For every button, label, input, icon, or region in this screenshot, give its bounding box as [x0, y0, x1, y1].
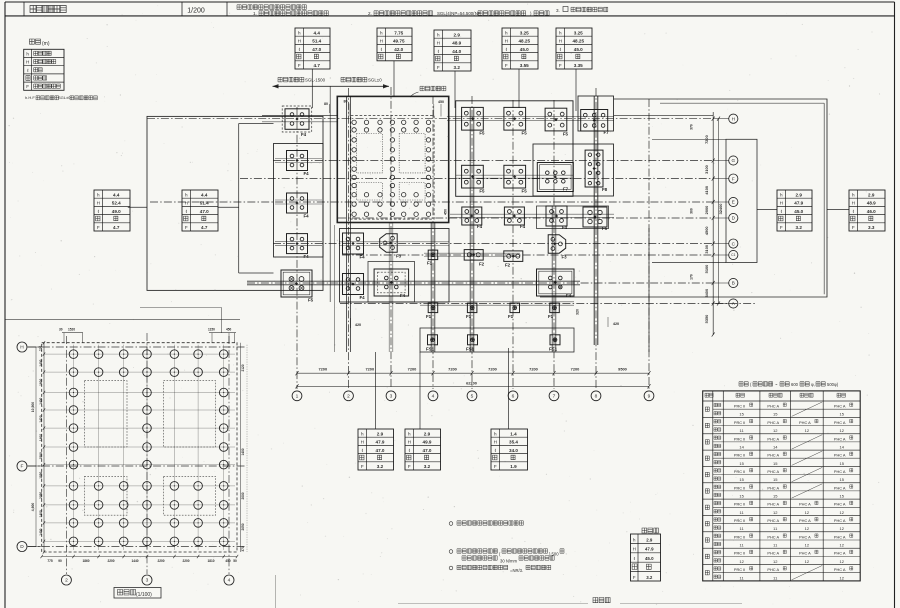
- svg-text:1400: 1400: [241, 448, 245, 455]
- SGL-1500 label: [278, 77, 326, 82]
- svg-text:7200: 7200: [408, 366, 417, 371]
- leader TL2: [218, 206, 239, 208]
- overall dim 62200: [296, 381, 651, 389]
- title bar: [5, 2, 895, 16]
- svg-text:ℓ: ℓ: [362, 448, 364, 453]
- bracket around right bubbles: [652, 139, 757, 262]
- svg-text:F1: F1: [508, 314, 514, 319]
- svg-text:12: 12: [839, 526, 844, 531]
- svg-text:3100: 3100: [704, 245, 709, 254]
- grid line col 6: [512, 100, 514, 389]
- beam row H mid: [447, 117, 614, 121]
- right dimension chain line: [712, 112, 715, 337]
- grid bubble right A: [729, 299, 738, 308]
- svg-text:1400: 1400: [39, 359, 43, 366]
- dim 7200 bottom: [365, 366, 374, 371]
- mat pit dotted square NW: [356, 134, 382, 173]
- svg-text:F4: F4: [304, 254, 310, 259]
- grid bubble left H: [17, 342, 27, 352]
- svg-text:45.0: 45.0: [645, 556, 654, 561]
- dim 2120 plan100 right: [241, 364, 245, 371]
- svg-text:45.0: 45.0: [574, 47, 583, 52]
- svg-text:3.55: 3.55: [520, 63, 529, 68]
- svg-text:F5: F5: [522, 131, 528, 136]
- svg-text:H: H: [26, 60, 29, 65]
- svg-text:500φ): 500φ): [827, 382, 839, 387]
- svg-text:F5: F5: [563, 132, 569, 137]
- svg-text:7200: 7200: [571, 366, 580, 371]
- beam row C segment: [339, 242, 449, 246]
- svg-text:PRC II: PRC II: [734, 567, 745, 572]
- svg-text:2200: 2200: [157, 559, 164, 563]
- left bracket: [239, 124, 274, 274]
- svg-text:12: 12: [839, 543, 844, 548]
- dim 2050 plan100 right: [241, 523, 245, 530]
- svg-text:FS1: FS1: [549, 347, 558, 352]
- svg-text:1.9: 1.9: [510, 464, 517, 469]
- dim 1810 plan100 bottom: [207, 559, 214, 563]
- beam row B: [247, 281, 580, 285]
- svg-text:H: H: [298, 39, 301, 44]
- svg-text:F1: F1: [466, 314, 472, 319]
- footing F4 col3 row-B dashed: [374, 269, 409, 298]
- svg-text:1810: 1810: [207, 559, 214, 563]
- svg-text:14: 14: [739, 444, 744, 449]
- svg-text:47.9: 47.9: [794, 201, 803, 206]
- footing F1 col7 row-A: [548, 303, 559, 319]
- svg-text:14: 14: [773, 444, 778, 449]
- leader left H: [27, 346, 41, 348]
- svg-text:2000: 2000: [241, 492, 245, 499]
- plan100 bottom dim line: [41, 555, 239, 558]
- svg-text:H: H: [20, 345, 24, 351]
- svg-text:1/200: 1/200: [187, 8, 205, 15]
- grid bubble plan100 col 2: [61, 575, 71, 585]
- table T6 h-values: [777, 190, 812, 231]
- svg-text:F: F: [408, 464, 411, 469]
- svg-text:H: H: [185, 201, 188, 206]
- grid bubble right D: [729, 213, 738, 222]
- footing F1 col4 row-A: [426, 303, 438, 319]
- svg-text:F: F: [298, 63, 301, 68]
- svg-text:450: 450: [226, 328, 232, 332]
- plan100 grid row F: [28, 465, 245, 467]
- svg-text:PHC A: PHC A: [767, 534, 779, 539]
- dim 4600 plan100: [31, 466, 36, 547]
- dim 4500 right chain: [704, 226, 709, 235]
- dim 170: [690, 274, 694, 280]
- svg-text:1150: 1150: [208, 328, 215, 332]
- svg-text:PRC II: PRC II: [734, 551, 745, 556]
- svg-text:D: D: [20, 544, 24, 550]
- svg-text:F4: F4: [360, 255, 366, 260]
- svg-text:F1: F1: [548, 314, 554, 319]
- svg-text:15: 15: [773, 493, 778, 498]
- svg-text:SGL(4)NP=54.500(NP: SGL(4)NP=54.500(NP: [437, 11, 481, 16]
- svg-text:47.0: 47.0: [376, 448, 385, 453]
- svg-text:1: 1: [296, 394, 299, 400]
- beam row H right: [614, 115, 713, 117]
- svg-text:F2: F2: [479, 262, 485, 267]
- grid bubble right H: [729, 114, 738, 123]
- beam col4: [431, 222, 435, 352]
- svg-text:F1: F1: [427, 261, 433, 266]
- svg-text:PRC II: PRC II: [734, 534, 745, 539]
- svg-text:): ): [530, 11, 532, 16]
- svg-text:12: 12: [839, 559, 844, 564]
- svg-text:2: 2: [347, 394, 350, 400]
- svg-text:PRC II: PRC II: [734, 404, 745, 409]
- svg-text:11: 11: [773, 526, 778, 531]
- dim 775 plan100 bottom: [47, 559, 53, 563]
- svg-text:15: 15: [773, 461, 778, 466]
- svg-text:(1/100): (1/100): [136, 592, 152, 598]
- svg-text:1600: 1600: [39, 379, 43, 386]
- note item3: [556, 7, 608, 14]
- svg-text:H: H: [408, 440, 411, 445]
- svg-text:G: G: [732, 158, 736, 163]
- svg-text:F: F: [21, 464, 24, 470]
- note item2: [368, 11, 549, 16]
- SGL+-0 label: [341, 77, 382, 82]
- footing F7 row-H: [581, 110, 609, 135]
- svg-text:ℓ: ℓ: [853, 209, 855, 214]
- svg-text:6: 6: [512, 394, 515, 400]
- svg-text:PRC II: PRC II: [734, 502, 745, 507]
- svg-text:PHC A: PHC A: [767, 404, 779, 409]
- leader TL1: [128, 206, 147, 208]
- grid bubble right E: [729, 197, 738, 206]
- svg-text:PHC A: PHC A: [767, 436, 779, 441]
- beam stubs left footing column: [275, 159, 322, 246]
- svg-text:F3: F3: [396, 254, 402, 259]
- svg-text:90: 90: [58, 559, 62, 563]
- grid line row B: [247, 282, 713, 284]
- grid bubble right B: [729, 278, 738, 287]
- leader bubble F: [713, 178, 728, 180]
- svg-text:44.0: 44.0: [452, 49, 461, 54]
- footing F5 col6 row-H: [504, 107, 527, 135]
- svg-text:SGL-1500: SGL-1500: [305, 78, 326, 83]
- grid bubble bottom col 9: [644, 391, 654, 401]
- footing F7 row-G: [537, 163, 573, 192]
- beam col5: [470, 108, 474, 352]
- svg-text:2.9: 2.9: [796, 192, 803, 197]
- mat inner dashed outline: [351, 116, 434, 220]
- svg-text:F: F: [26, 84, 29, 89]
- svg-text:ℓ: ℓ: [495, 448, 497, 453]
- svg-text:PHC A: PHC A: [834, 534, 846, 539]
- table T7 h-values: [849, 190, 885, 231]
- pile table group 8: [705, 518, 853, 532]
- svg-text:PHC A: PHC A: [767, 469, 779, 474]
- svg-text:ℓ: ℓ: [186, 209, 188, 214]
- svg-text:49.0: 49.0: [112, 209, 121, 214]
- note bullet 1: [449, 521, 523, 526]
- svg-text:F5: F5: [479, 189, 485, 194]
- svg-text:φ,: φ,: [811, 382, 815, 387]
- dim 1600 plan100 left: [39, 379, 43, 386]
- svg-text:450: 450: [225, 559, 231, 563]
- outline footing column box: [274, 144, 324, 258]
- svg-text:=NR/3.: =NR/3.: [510, 568, 523, 573]
- svg-text:4.4: 4.4: [201, 192, 208, 197]
- svg-text:PHC A: PHC A: [834, 502, 846, 507]
- grid line col 9: [648, 99, 650, 389]
- svg-text:FS1: FS1: [466, 347, 475, 352]
- legend table: [24, 49, 64, 90]
- svg-text:12: 12: [739, 559, 744, 564]
- svg-text:(: (: [499, 552, 501, 557]
- table TB1 h-values: [358, 429, 394, 470]
- mat pit dotted square SW: [356, 183, 382, 201]
- svg-text:PHC A: PHC A: [799, 420, 811, 425]
- svg-text:PHC A: PHC A: [767, 567, 779, 572]
- beam row G segment: [456, 175, 573, 178]
- svg-text:49.9: 49.9: [423, 440, 432, 445]
- plan100 right dim chain: [241, 343, 248, 552]
- table TB2 h-values: [405, 429, 441, 470]
- grid line row E: [150, 201, 713, 203]
- note bullet 3: [449, 565, 551, 573]
- svg-text:h: h: [380, 30, 383, 35]
- svg-text:PRC II: PRC II: [734, 436, 745, 441]
- outline F7-F8 block: [533, 144, 614, 196]
- svg-text:4.7: 4.7: [314, 63, 321, 68]
- svg-text:47.9: 47.9: [376, 440, 385, 445]
- svg-text:F8: F8: [602, 187, 608, 192]
- footing F4 col2 row-B: [343, 274, 366, 301]
- dim 2000 right chain: [704, 206, 709, 215]
- svg-text:48.9: 48.9: [867, 201, 876, 206]
- svg-text:H: H: [361, 440, 364, 445]
- svg-text:1440: 1440: [131, 559, 138, 563]
- grid line col 2: [348, 88, 350, 389]
- dim 2200 plan100 bottom: [157, 559, 164, 563]
- svg-text:47.9: 47.9: [645, 547, 654, 552]
- leader bubble D: [713, 217, 728, 219]
- dim 1400 plan100 left: [39, 510, 43, 517]
- mat foundation outer border: [337, 96, 448, 222]
- mat dim 450 top: [434, 100, 444, 117]
- svg-text:12: 12: [839, 575, 844, 580]
- pile table group 6: [705, 484, 853, 499]
- svg-text:3.25: 3.25: [520, 30, 529, 35]
- svg-text:PRC II: PRC II: [734, 420, 745, 425]
- dim 50 plan100 bottom: [233, 559, 237, 563]
- grid line col 3: [390, 87, 392, 389]
- table TT tokki h-values: [631, 534, 661, 581]
- leader TB2: [419, 352, 421, 429]
- svg-text:F4: F4: [562, 225, 568, 230]
- svg-text:12: 12: [839, 428, 844, 433]
- svg-text:370: 370: [690, 124, 694, 130]
- leader T4: [518, 69, 520, 108]
- dim 3400 right chain: [704, 289, 709, 298]
- outline lower inner box: [368, 262, 415, 303]
- svg-text:PHC A: PHC A: [834, 551, 846, 556]
- svg-text:300: 300: [690, 208, 694, 214]
- svg-text:7200: 7200: [448, 366, 457, 371]
- svg-text:2: 2: [65, 578, 68, 584]
- svg-text:51.4: 51.4: [200, 201, 209, 206]
- svg-text:7200: 7200: [318, 366, 327, 371]
- svg-text:1400: 1400: [39, 434, 43, 441]
- footing F4 col7 row-D: [546, 206, 568, 230]
- grid bubble bottom col 7: [549, 391, 559, 401]
- dim 1440 plan100 bottom: [131, 559, 138, 563]
- outline left wing: [147, 116, 323, 290]
- svg-text:12: 12: [805, 428, 810, 433]
- leader left F: [27, 465, 41, 467]
- svg-text:(m): (m): [42, 41, 50, 47]
- dim 7200 bottom: [488, 366, 497, 371]
- pile table group 3: [705, 435, 853, 450]
- svg-text:ℓ: ℓ: [27, 68, 29, 73]
- svg-text:5350: 5350: [704, 315, 709, 324]
- svg-text:12: 12: [805, 543, 810, 548]
- dim 1860 plan100 bottom: [82, 559, 89, 563]
- svg-text:80: 80: [324, 102, 328, 106]
- footing F5 col5 row-H: [462, 107, 485, 135]
- svg-text:E: E: [732, 200, 735, 205]
- svg-text:2050: 2050: [241, 523, 245, 530]
- footing F4 col2 row-C: [343, 233, 366, 260]
- svg-text:F5: F5: [602, 226, 608, 231]
- svg-text:PHC A: PHC A: [834, 420, 846, 425]
- dim 420 below col8: [608, 317, 619, 327]
- svg-text:46.0: 46.0: [867, 209, 876, 214]
- svg-text:F3: F3: [562, 255, 568, 260]
- footing F5 col5 row-G: [462, 165, 485, 193]
- svg-text:D: D: [732, 216, 736, 221]
- plan100 pit square NW: [84, 381, 127, 447]
- grid bubble right F: [729, 174, 738, 183]
- leader bubble A: [713, 303, 728, 305]
- svg-text:H: H: [852, 201, 855, 206]
- svg-text:1.4: 1.4: [510, 431, 517, 436]
- pile table group 1: [705, 402, 853, 417]
- svg-text:F: F: [185, 225, 188, 230]
- svg-text:11: 11: [740, 510, 745, 515]
- svg-text:F5: F5: [479, 131, 485, 136]
- svg-text:2200: 2200: [182, 559, 189, 563]
- table T2 h-values: [377, 28, 412, 61]
- table TL1 h-values: [94, 190, 130, 231]
- svg-text:3.2: 3.2: [454, 65, 461, 70]
- dim 2050 plan100 left: [39, 492, 43, 499]
- title text pile foundation plan: [30, 6, 66, 13]
- svg-text:11: 11: [773, 575, 778, 580]
- svg-text:F4: F4: [304, 214, 310, 219]
- svg-text:50: 50: [233, 559, 237, 563]
- svg-text:PHC A: PHC A: [767, 518, 779, 523]
- svg-text:2120: 2120: [241, 364, 245, 371]
- pile table group 11: [705, 566, 853, 581]
- svg-text:PHC A: PHC A: [767, 502, 779, 507]
- detail ref label: [410, 86, 446, 97]
- svg-text:PHC A: PHC A: [767, 551, 779, 556]
- svg-text:ℓ: ℓ: [506, 47, 508, 52]
- svg-text:C: C: [732, 241, 736, 246]
- plan100 top dim line: [62, 333, 236, 343]
- svg-text:4.7: 4.7: [113, 225, 120, 230]
- svg-text:ℓ: ℓ: [381, 47, 383, 52]
- svg-text:h.H.F: h.H.F: [25, 95, 35, 100]
- dim 1550 plan100 left: [39, 471, 43, 478]
- svg-text:7.75: 7.75: [394, 30, 403, 35]
- svg-text:11: 11: [740, 428, 745, 433]
- dim 10500 plan100: [31, 347, 36, 466]
- dim 90 plan100 bottom: [58, 559, 62, 563]
- svg-text:PHC A: PHC A: [834, 453, 846, 458]
- leader bubble H: [713, 118, 728, 120]
- plan100 lattice lines: [44, 345, 235, 550]
- grid line row C1: [342, 254, 713, 256]
- dim 7200 bottom: [318, 366, 327, 371]
- svg-text:H: H: [559, 39, 562, 44]
- footing F1 col4 row-C1: [427, 250, 438, 265]
- label tokki-kui: [642, 528, 658, 533]
- svg-text:3.2: 3.2: [796, 225, 803, 230]
- svg-text:4,600: 4,600: [31, 503, 35, 512]
- footing F8 col8: [585, 150, 608, 192]
- svg-text:F1: F1: [426, 314, 432, 319]
- leader bubble C1: [713, 254, 728, 256]
- leader T7: [827, 209, 849, 211]
- svg-text:1.: 1.: [253, 11, 257, 16]
- svg-text:52.4: 52.4: [112, 201, 121, 206]
- svg-text:h: h: [494, 431, 497, 436]
- svg-text:PHC A: PHC A: [799, 502, 811, 507]
- grid bubble right C: [729, 239, 738, 248]
- svg-text:F: F: [494, 464, 497, 469]
- svg-text:C1: C1: [731, 253, 735, 257]
- svg-text:4100: 4100: [704, 186, 709, 195]
- svg-text:42.0: 42.0: [394, 47, 403, 52]
- svg-text:47.0: 47.0: [200, 209, 209, 214]
- svg-text:ℓ: ℓ: [634, 556, 636, 561]
- pile table group 4: [705, 451, 853, 466]
- svg-text:45.0: 45.0: [794, 209, 803, 214]
- svg-text:F: F: [361, 464, 364, 469]
- svg-text:320: 320: [576, 309, 580, 315]
- legend unit label: [30, 39, 50, 47]
- footing F5 col7 row-H: [545, 108, 568, 136]
- grid line row D: [338, 217, 713, 219]
- svg-text:30: 30: [59, 328, 63, 332]
- svg-text:H: H: [437, 41, 440, 46]
- dim 9500 bottom: [618, 366, 627, 371]
- svg-text:7200: 7200: [529, 366, 538, 371]
- grid line col 4: [432, 96, 434, 389]
- svg-text:~: ~: [775, 382, 778, 387]
- svg-text:15: 15: [773, 412, 778, 417]
- svg-text:PHC A: PHC A: [799, 551, 811, 556]
- leader left D: [27, 546, 41, 548]
- footing F3 col3 row-C: [380, 234, 402, 259]
- svg-text:720: 720: [39, 346, 43, 352]
- svg-text:775: 775: [47, 559, 53, 563]
- plan100 left dim chain: [43, 341, 45, 554]
- svg-text:15: 15: [773, 477, 778, 482]
- leader T3: [454, 71, 456, 108]
- svg-text:11: 11: [740, 575, 745, 580]
- dim 1580 plan100 left: [39, 452, 43, 459]
- grid bubble plan100 col 3: [142, 575, 152, 585]
- svg-text:F: F: [633, 575, 636, 580]
- svg-text:30 N/mm: 30 N/mm: [500, 559, 517, 564]
